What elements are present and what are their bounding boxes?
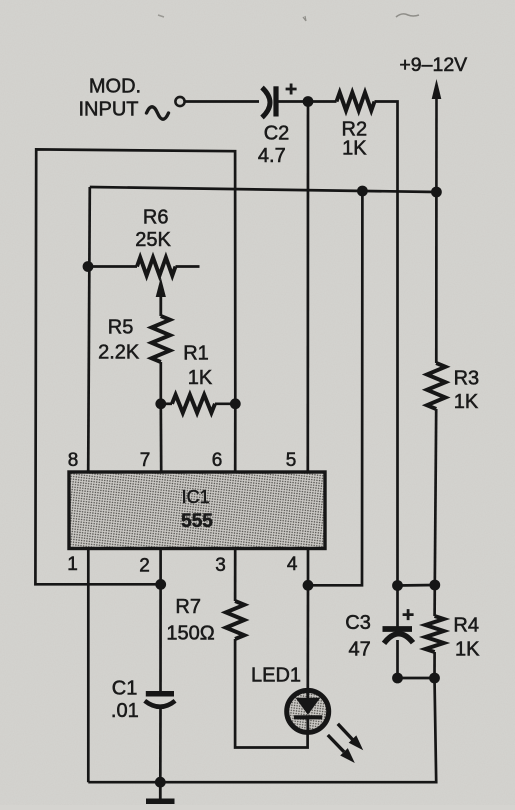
node Vcc to pin4 line [357, 186, 368, 197]
wire node to R4 [433, 585, 436, 616]
svg-text:6: 6 [212, 450, 223, 471]
label 1K of R4 [455, 639, 480, 661]
label IC1 [182, 487, 210, 507]
label R1 [183, 343, 209, 365]
wire pin6-pin2 loop [35, 149, 235, 584]
wire ground rail [88, 678, 436, 782]
svg-text:R5: R5 [108, 317, 134, 339]
wire C2 to node [279, 100, 309, 103]
svg-text:8: 8 [68, 450, 79, 471]
LED light arrow 2 [328, 735, 355, 763]
pin 8 [68, 450, 79, 471]
wire C1 to ground rail [159, 708, 162, 782]
svg-text:R3: R3 [454, 367, 480, 389]
label MOD. [89, 75, 141, 97]
input terminal [175, 97, 184, 106]
pin 2 [139, 555, 150, 576]
wire R3 to node [435, 409, 436, 585]
node C3 top [392, 580, 403, 591]
LED light arrow 1 [338, 724, 363, 751]
power arrow [432, 79, 442, 192]
ground [146, 782, 175, 801]
wire pin 4 [307, 549, 310, 586]
svg-text:R6: R6 [143, 207, 169, 229]
wire to C3 [396, 586, 399, 628]
R6 wiper arrow [156, 277, 166, 316]
resistor R4 [425, 616, 443, 652]
svg-text:.01: .01 [111, 700, 139, 722]
node pin 4 [303, 580, 314, 591]
node R1 right / pin 6 [230, 398, 241, 409]
capacitor C2 [262, 84, 297, 118]
LED LED1 [287, 690, 329, 732]
capacitor C1 [145, 694, 175, 707]
svg-text:1K: 1K [188, 367, 213, 389]
pin 6 [212, 450, 223, 471]
label INPUT [79, 98, 139, 120]
label R2 [342, 118, 368, 140]
svg-text:4.7: 4.7 [258, 145, 286, 167]
wire R7 to LED bottom [235, 639, 308, 748]
svg-text:1: 1 [67, 554, 78, 575]
label 47 [348, 639, 370, 661]
scan speck [158, 15, 164, 17]
label 1K of R3 [454, 391, 479, 413]
wire R2 to C3 node [375, 102, 398, 586]
wire Vcc rail to pin 8 [88, 187, 90, 471]
wire pin 3 to R7 [234, 549, 237, 602]
label 1K of R1 [188, 367, 213, 389]
op-amp U1 / timer IC1 555 box [69, 472, 325, 549]
label R3 [454, 367, 480, 389]
label +9-12V [399, 54, 467, 76]
wire C3 to bottom rail [396, 640, 399, 678]
resistor R3 [427, 363, 445, 409]
node ground [155, 777, 166, 788]
svg-text:4: 4 [287, 554, 298, 575]
svg-text:INPUT: INPUT [79, 98, 139, 120]
svg-text:R1: R1 [183, 343, 209, 365]
label C1 [112, 678, 138, 700]
label R5 [108, 317, 134, 339]
svg-text:C3: C3 [345, 612, 371, 634]
label R6 [143, 207, 169, 229]
node Vcc at supply line [431, 187, 442, 198]
svg-text:LED1: LED1 [251, 665, 301, 687]
capacitor C3 [383, 609, 414, 643]
wire node to R6 [88, 265, 137, 268]
wire Vcc to R3 [435, 192, 438, 363]
svg-text:R7: R7 [175, 596, 201, 618]
wire C3/R4 top rail [398, 584, 435, 587]
wire R4 to bottom rail [433, 652, 436, 678]
resistor R1 [172, 395, 215, 413]
resistor R2 [337, 93, 375, 111]
wire pin 5 [306, 102, 309, 472]
wire R1 to node [215, 402, 235, 405]
wire pin2 to C1 [159, 584, 162, 694]
svg-text:1K: 1K [455, 639, 480, 661]
node C3 bottom [392, 673, 403, 684]
node R4 bottom [429, 673, 440, 684]
pin 7 [140, 450, 151, 471]
svg-text:7: 7 [140, 450, 151, 471]
svg-text:C2: C2 [264, 122, 290, 144]
svg-text:150Ω: 150Ω [166, 622, 214, 644]
wire to R1 [161, 402, 172, 405]
node C2/R2/pin5 [303, 96, 314, 107]
wire C3/R4 bottom rail [398, 677, 435, 680]
label 4.7 [258, 145, 286, 167]
label LED1 [251, 665, 301, 687]
label .01 [111, 700, 139, 722]
svg-text:25K: 25K [135, 229, 171, 251]
label R4 [453, 614, 479, 636]
svg-text:47: 47 [348, 639, 370, 661]
wire pin 7 [159, 404, 162, 471]
label 1K of R2 [342, 137, 367, 159]
wire pin4 to LED [306, 585, 309, 689]
svg-text:1K: 1K [342, 137, 367, 159]
svg-text:3: 3 [215, 555, 226, 576]
svg-text:2.2K: 2.2K [98, 341, 140, 363]
sine symbol [147, 107, 169, 120]
svg-text:R4: R4 [453, 614, 479, 636]
wire pin 2 [159, 549, 162, 585]
node R6 left [83, 261, 94, 272]
wire pin 1 to ground [87, 549, 90, 783]
svg-text:2: 2 [139, 555, 150, 576]
node pin 2 [155, 579, 166, 590]
svg-text:MOD.: MOD. [89, 75, 141, 97]
pin 1 [67, 554, 78, 575]
svg-text:C1: C1 [112, 678, 138, 700]
svg-text:5: 5 [286, 450, 297, 471]
label R7 [175, 596, 201, 618]
node R1 left / pin 7 [155, 398, 166, 409]
scan speck [303, 16, 306, 21]
wire R6 right stub [176, 265, 200, 268]
node R4 top [429, 580, 440, 591]
label 150ohm [166, 622, 214, 644]
svg-text:+9–12V: +9–12V [399, 54, 467, 76]
resistor R5 [152, 316, 170, 362]
label 2.2K [98, 341, 140, 363]
label C2 [264, 122, 290, 144]
svg-text:1K: 1K [454, 391, 479, 413]
wire Vcc to pin 4 [308, 191, 362, 585]
label C3 [345, 612, 371, 634]
pin 4 [287, 554, 298, 575]
wire pin 6 [234, 404, 237, 471]
wire R5 to R1 node [159, 362, 162, 404]
wire Vcc rail [90, 187, 437, 192]
scan squiggle [396, 14, 419, 17]
label 555 [181, 511, 213, 532]
pin 5 [286, 450, 297, 471]
resistor R6 (potentiometer) [137, 258, 176, 276]
resistor R7 [226, 601, 244, 639]
svg-text:555: 555 [181, 511, 213, 532]
svg-text:IC1: IC1 [182, 487, 210, 507]
wire input to C2 [185, 100, 259, 103]
wire node to R2 [308, 100, 337, 103]
label 25K [135, 229, 171, 251]
pin 3 [215, 555, 226, 576]
